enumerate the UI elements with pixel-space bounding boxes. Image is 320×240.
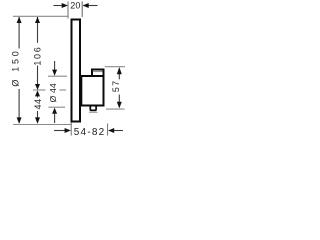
svg-text:106: 106 xyxy=(32,46,42,66)
escutcheon plate outline xyxy=(72,20,81,122)
svg-text:44: 44 xyxy=(33,98,43,109)
dim 150: line lower xyxy=(18,89,20,123)
dim 54-82: left arrow xyxy=(54,130,65,132)
dim 44 chain: line lower stub xyxy=(37,111,39,118)
select button bump xyxy=(92,70,104,76)
57 bottom extension line xyxy=(106,108,125,110)
bump inner line xyxy=(93,71,103,73)
handle body outline xyxy=(81,76,103,106)
svg-text:Ø 44: Ø 44 xyxy=(48,83,58,102)
svg-text:Ø 150: Ø 150 xyxy=(10,49,20,87)
dim 57: top arrow xyxy=(117,67,122,74)
dim 106: bottom arrow xyxy=(35,84,40,90)
dim 106: top arrow xyxy=(35,17,40,23)
dim 20: left arrow xyxy=(54,5,63,7)
centerline tick left segment xyxy=(33,89,46,91)
centerline tick right segment xyxy=(60,89,67,91)
dim 44 chain: bottom arrow xyxy=(35,117,40,123)
dim 20: left extension bar xyxy=(67,2,69,19)
dim 44 chain: top arrow xyxy=(35,90,40,96)
dim O44: up arrow xyxy=(52,108,57,114)
dim 106: line lower xyxy=(37,66,39,85)
dim 150: top arrow xyxy=(17,17,22,23)
top extension line (plate top) xyxy=(13,15,68,17)
bottom extension line (plate bottom) xyxy=(13,124,72,126)
dim 54-82: right extension bar xyxy=(107,124,109,136)
dim 106: line upper xyxy=(37,17,39,43)
dim 54-82: right arrow xyxy=(114,130,123,132)
dim 20: right extension bar xyxy=(81,2,83,18)
dim 150: bottom arrow xyxy=(17,117,22,123)
dim O44: down arrow xyxy=(52,70,57,76)
dim 20: right arrow xyxy=(88,5,97,7)
svg-text:54-82: 54-82 xyxy=(74,127,106,138)
dim 57: bottom arrow xyxy=(117,102,122,109)
dim 44 chain: line upper stub xyxy=(37,97,39,98)
dim 57: line lower xyxy=(118,95,120,103)
foot clip under handle xyxy=(90,107,96,111)
svg-text:20: 20 xyxy=(70,1,80,11)
dim 150: line upper xyxy=(18,17,20,49)
handle top extension line xyxy=(48,75,67,77)
dim O44: line upper xyxy=(54,61,56,70)
dim O44: line lower xyxy=(54,114,56,123)
foot underline xyxy=(89,111,98,113)
svg-text:57: 57 xyxy=(111,80,121,92)
57 top extension line xyxy=(105,66,125,68)
handle bottom extension line xyxy=(49,106,66,108)
dim 54-82: left extension bar xyxy=(70,123,72,136)
dim 57: line upper xyxy=(118,74,120,79)
